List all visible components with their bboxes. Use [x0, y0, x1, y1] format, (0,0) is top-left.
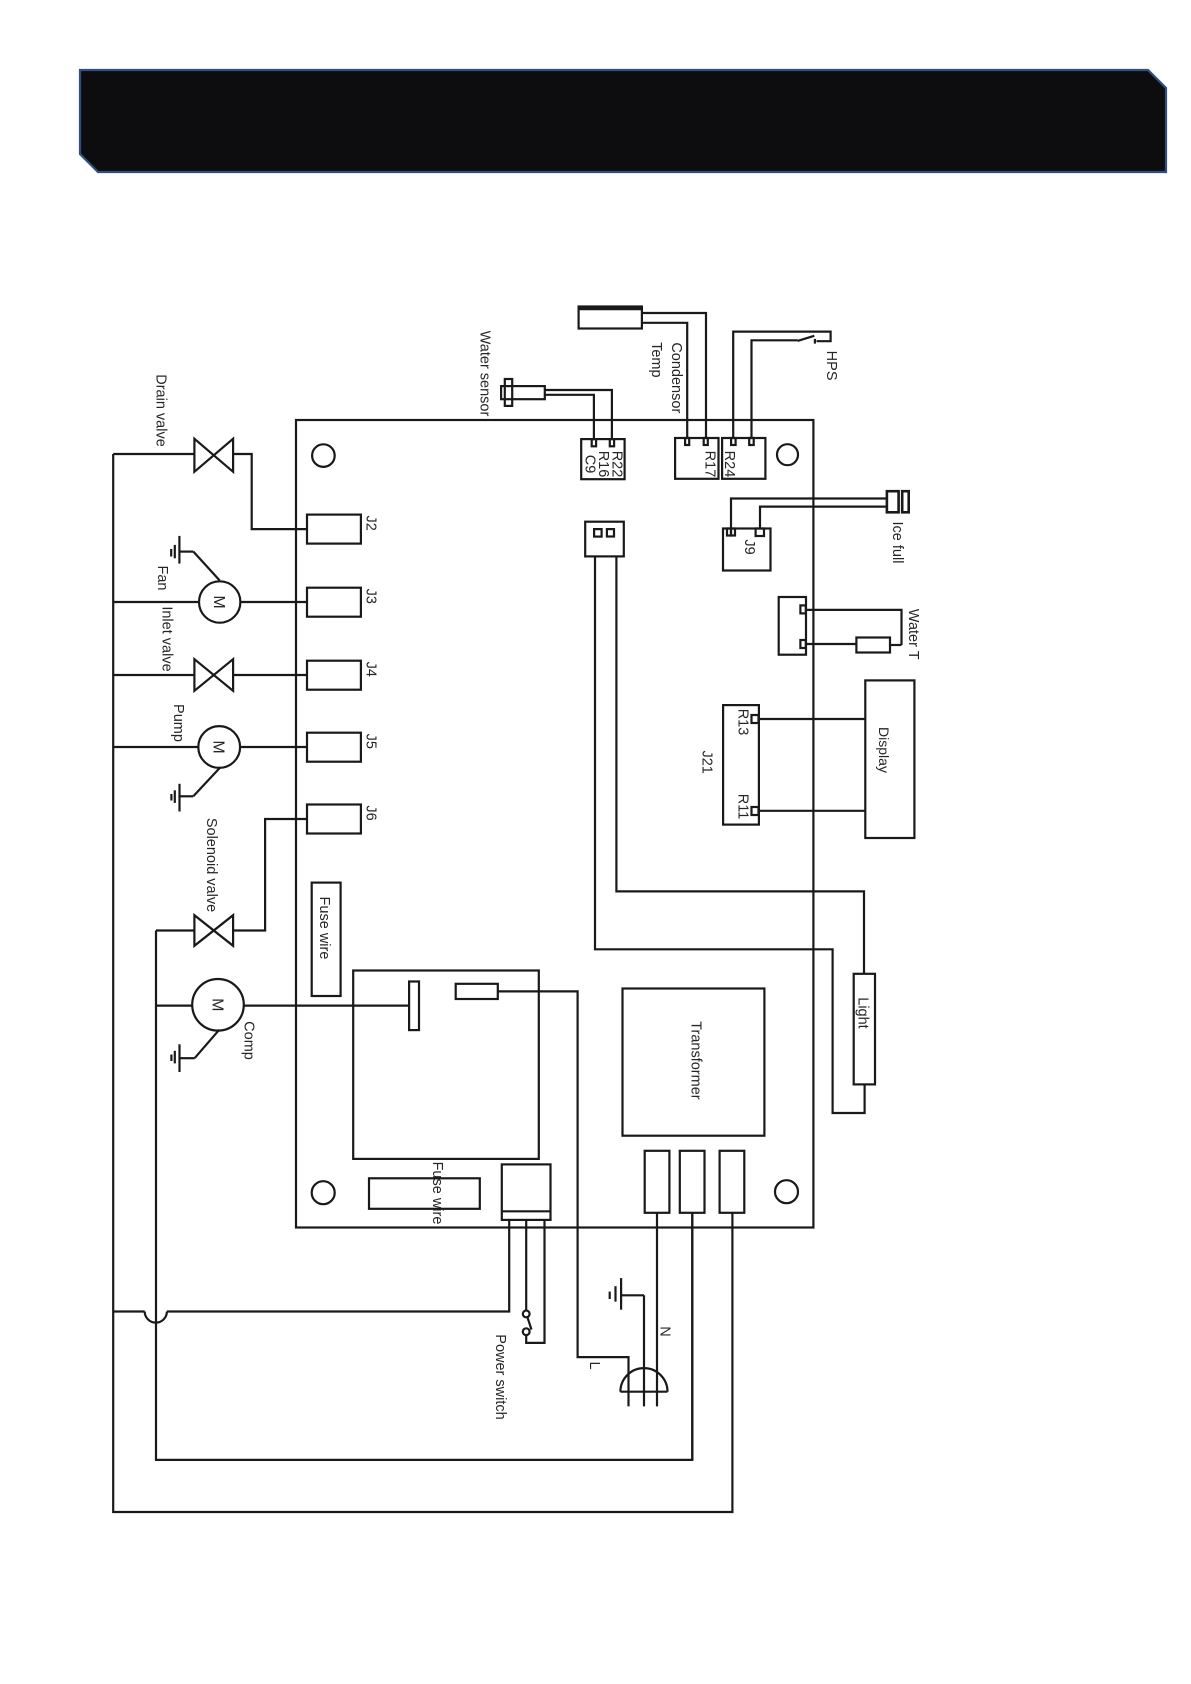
- svg-text:Transformer: Transformer: [688, 1021, 704, 1100]
- svg-text:J2: J2: [362, 516, 378, 531]
- svg-text:Ice full: Ice full: [889, 522, 905, 564]
- svg-text:Solenoid valve: Solenoid valve: [203, 818, 219, 912]
- svg-text:Power switch: Power switch: [492, 1334, 508, 1419]
- svg-text:L: L: [586, 1361, 602, 1369]
- svg-text:R11: R11: [734, 794, 750, 820]
- svg-text:J21: J21: [699, 751, 715, 774]
- svg-text:C9: C9: [581, 455, 597, 474]
- svg-text:M: M: [210, 595, 227, 608]
- svg-text:Light: Light: [854, 997, 870, 1028]
- svg-text:Comp: Comp: [240, 1021, 256, 1060]
- svg-text:Fuse wire: Fuse wire: [429, 1162, 445, 1225]
- svg-text:Fan: Fan: [154, 566, 170, 591]
- svg-text:Inlet valve: Inlet valve: [158, 606, 174, 671]
- svg-text:J4: J4: [362, 662, 378, 677]
- svg-text:N: N: [656, 1326, 672, 1336]
- svg-text:J9: J9: [741, 539, 757, 554]
- svg-text:J3: J3: [362, 589, 378, 604]
- svg-text:M: M: [210, 740, 227, 753]
- svg-text:Pump: Pump: [170, 704, 186, 742]
- svg-text:Drain valve: Drain valve: [152, 374, 168, 447]
- svg-text:HPS: HPS: [823, 351, 839, 381]
- svg-text:Condensor: Condensor: [668, 342, 684, 413]
- svg-text:J6: J6: [362, 805, 378, 820]
- svg-text:R17: R17: [702, 451, 718, 478]
- svg-text:R13: R13: [734, 709, 750, 736]
- svg-text:Display: Display: [876, 727, 892, 773]
- svg-text:J5: J5: [362, 734, 378, 749]
- svg-text:R24: R24: [721, 451, 737, 478]
- svg-text:M: M: [208, 998, 225, 1011]
- svg-text:Water sensor: Water sensor: [476, 331, 492, 417]
- svg-text:Water T: Water T: [905, 609, 921, 660]
- svg-text:Temp: Temp: [648, 342, 664, 377]
- svg-text:Fuse wire: Fuse wire: [316, 897, 332, 960]
